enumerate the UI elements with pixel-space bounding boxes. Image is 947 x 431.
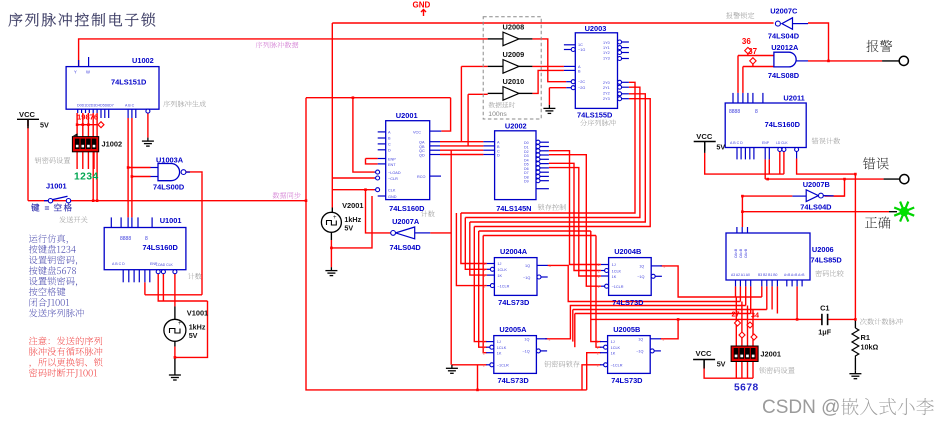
svg-text:U2004A: U2004A: [500, 247, 528, 256]
wire QD to U2002.D: [440, 154, 483, 156]
wire U1003A in1: [128, 167, 150, 169]
label 数据延时: [489, 102, 516, 108]
svg-text:10kΩ: 10kΩ: [861, 343, 879, 352]
wire U2006 out up: [741, 196, 743, 227]
svg-text:~1CLR: ~1CLR: [497, 284, 509, 288]
wire V2001 minus: [330, 240, 332, 267]
svg-text:J1001: J1001: [46, 182, 67, 191]
wire D3 to U2004B ~2CLR: [549, 155, 601, 287]
svg-text:1: 1: [598, 269, 600, 273]
diamond connector key bus: [98, 122, 104, 128]
svg-text:5678: 5678: [734, 383, 759, 394]
wire: [882, 60, 899, 62]
svg-text:V2001: V2001: [342, 201, 363, 210]
svg-text:VCC: VCC: [413, 130, 421, 134]
junction: [854, 318, 857, 321]
wire D2 to U2004B 2J: [549, 151, 601, 265]
wire: [174, 341, 176, 346]
annotation: simulation instructions: [29, 234, 68, 243]
svg-text:D0D1D2D3D4D5D6D7: D0D1D2D3D4D5D6D7: [77, 104, 114, 108]
svg-text:V1001: V1001: [187, 308, 208, 317]
svg-text:1: 1: [483, 268, 485, 272]
wire J2001 col1: [735, 297, 737, 346]
label 钥密码锁存: [544, 361, 579, 368]
svg-text:1C: 1C: [578, 43, 583, 47]
wire U1002.D4 down: [92, 113, 94, 201]
VCC J2001 power symbol: [693, 360, 715, 369]
svg-text:2Y0: 2Y0: [603, 81, 610, 85]
wire VCC rail U2011: [705, 153, 784, 174]
wire to U2004A ~1CLR: [456, 213, 486, 286]
wire U2006 pin down3: [745, 286, 747, 305]
svg-text:8888: 8888: [729, 109, 740, 115]
svg-text:~1Q: ~1Q: [522, 350, 529, 354]
wire: [519, 38, 532, 40]
svg-text:5V: 5V: [344, 223, 353, 232]
svg-text:19876: 19876: [77, 113, 98, 122]
wire U2008 out to ~2C: [532, 39, 566, 82]
wire: [889, 211, 897, 213]
svg-text:34: 34: [751, 311, 759, 320]
wire: [488, 65, 503, 67]
wire to U2004A 1CLK: [465, 218, 487, 270]
U2004B pins: [601, 264, 609, 266]
svg-text:74LS155D: 74LS155D: [577, 111, 613, 120]
svg-text:1CLK: 1CLK: [497, 346, 507, 350]
wire 2Y2 bus: [470, 94, 646, 222]
svg-text:C1: C1: [820, 304, 829, 313]
svg-text:1: 1: [483, 364, 485, 368]
svg-text:VCC: VCC: [19, 110, 36, 119]
wire U2004A 1Q to U2006: [548, 265, 741, 301]
label 锁存控制: [538, 204, 566, 211]
wire down to V1001 minus: [175, 301, 208, 357]
svg-text:1: 1: [597, 340, 599, 344]
wire U2007C in from alarm: [808, 23, 829, 61]
wire vert x477: [477, 365, 479, 390]
svg-text:5V: 5V: [716, 142, 725, 151]
svg-text:OA<B: OA<B: [734, 248, 738, 258]
wire to U2001 ~LOAD: [353, 98, 375, 172]
wire U2006 pin A down1: [735, 286, 737, 297]
svg-text:W: W: [86, 70, 90, 75]
svg-text:A B C D: A B C D: [112, 262, 125, 266]
wire QA to U2002.A: [440, 141, 483, 143]
svg-text:=: =: [45, 203, 50, 213]
wire U2011 ~CLR down: [783, 152, 785, 175]
wire J1002 down3: [87, 152, 89, 169]
counter U1001 74LS160D body: [104, 228, 186, 270]
wire vertical x332: [331, 23, 333, 208]
wire to U2004A 1K: [470, 222, 487, 275]
svg-text:U2001: U2001: [396, 111, 418, 120]
wire J1002 pin1: [76, 113, 78, 137]
label 错误: [863, 157, 889, 169]
decoder U2002 74LS145N body: [495, 131, 536, 200]
multiplexer U1002 74LS151D body: [66, 67, 159, 110]
wire U2012A in1: [738, 55, 774, 57]
svg-text:1J: 1J: [612, 263, 616, 267]
wire J1002 pin2: [82, 113, 84, 137]
svg-text:U2007A: U2007A: [392, 217, 420, 226]
title text: [9, 13, 156, 27]
wire net 次数计数脉冲 C1 row: [591, 318, 822, 320]
svg-text:8: 8: [755, 109, 758, 115]
wire D6 to U2004B 2K: [549, 168, 601, 276]
svg-text:A B C: A B C: [125, 104, 135, 108]
svg-text:1: 1: [483, 352, 485, 356]
label 错误计数: [812, 138, 840, 145]
wire U2009 input: [461, 65, 487, 67]
ground U1002 strobe: [142, 138, 154, 147]
wire 2Y3 bus: [474, 99, 650, 227]
svg-text:1234: 1234: [74, 172, 99, 183]
virtual connector: [747, 322, 753, 328]
junction: [352, 96, 355, 99]
svg-text:~1CLR: ~1CLR: [611, 364, 623, 368]
terminal 报警: [899, 56, 908, 65]
comparator U2006 74LS85D body: [726, 233, 810, 280]
svg-text:U1002: U1002: [132, 56, 154, 65]
svg-text:1: 1: [483, 340, 485, 344]
label 计数 U2001: [421, 211, 435, 218]
U2011 pins: [732, 93, 734, 103]
label 密码比较: [815, 270, 843, 277]
wire to U2004A 1J: [461, 213, 487, 264]
wire U2006 pin down5: [761, 286, 763, 297]
svg-text:U2010: U2010: [503, 77, 525, 86]
wire U2011 ~LOAD down: [779, 152, 781, 175]
svg-text:27: 27: [732, 310, 740, 319]
label 分序列脉冲: [580, 119, 615, 126]
latch U2005B 74LS73D body: [608, 336, 651, 374]
U2005B pins: [600, 341, 608, 343]
svg-text:R1: R1: [861, 333, 870, 342]
svg-text:RCO: RCO: [417, 175, 425, 179]
virtual connector: [735, 320, 741, 326]
ground V2001: [325, 267, 337, 276]
svg-text:1Y0: 1Y0: [603, 41, 610, 45]
wire U2011 CLK to RC node: [797, 159, 856, 320]
svg-text:U2005A: U2005A: [499, 325, 527, 334]
wire: [488, 92, 503, 94]
svg-text:1: 1: [598, 263, 600, 267]
junction: [330, 247, 333, 250]
svg-text:~2C: ~2C: [578, 80, 585, 84]
net label 序列脉冲数据: [256, 42, 299, 49]
inverter U2007B 74LS04D: [806, 190, 818, 202]
svg-text:1J: 1J: [497, 340, 501, 344]
svg-text:5V: 5V: [717, 360, 726, 369]
svg-text:1CLK: 1CLK: [611, 346, 621, 350]
junction: [174, 356, 177, 359]
wire vert x468: [467, 94, 469, 146]
wire U1001 ~LOAD down: [158, 274, 207, 301]
svg-text:1CLK: 1CLK: [612, 269, 622, 273]
svg-text:74LS73D: 74LS73D: [611, 376, 643, 385]
wire: [704, 142, 706, 153]
svg-text:VCC: VCC: [696, 349, 713, 358]
wire U2005B 2Q up: [661, 319, 679, 338]
wire C1 right: [828, 318, 856, 320]
wire U1002.A down to U1001: [127, 118, 129, 217]
svg-text:~LOAD: ~LOAD: [388, 171, 401, 175]
junction: [843, 178, 846, 181]
junction: [131, 175, 134, 178]
junction: [854, 173, 857, 176]
U2004A pins: [487, 263, 495, 265]
diamond connector 37: [750, 58, 756, 64]
svg-text:5V: 5V: [40, 121, 49, 130]
wire ~2G stub: [549, 87, 566, 89]
svg-text:~1Q: ~1Q: [523, 276, 530, 280]
AND gate U2012A 74LS08D: [774, 52, 796, 67]
svg-text:~1Q: ~1Q: [637, 275, 644, 279]
svg-text:U2012A: U2012A: [771, 43, 799, 52]
inverter U2007A 74LS04D (points left): [396, 227, 415, 239]
wire U2011 ENP down: [764, 159, 766, 179]
wire fan row4: [573, 309, 767, 311]
label 钥密码设置: [35, 157, 70, 164]
latch U2004A 74LS73D body: [494, 258, 537, 296]
label 锁密码设置: [759, 367, 794, 374]
wire U1001 ~CLR down: [162, 274, 164, 301]
svg-text:U2009: U2009: [503, 50, 525, 59]
wire VCC down left: [27, 119, 29, 200]
label 正确: [865, 217, 891, 229]
svg-text:1K: 1K: [497, 274, 502, 278]
wire to U2011 top2: [742, 67, 744, 93]
U2001 pins: [378, 131, 386, 133]
wire J2001 dn3: [747, 362, 749, 379]
junction: [476, 389, 479, 392]
wire net 序列脉冲数据: [79, 39, 488, 67]
svg-text:D9: D9: [524, 180, 529, 184]
wire V1001 minus: [174, 347, 176, 358]
svg-text:U2004B: U2004B: [614, 247, 641, 256]
wire fan row4 left end: [572, 310, 574, 342]
wire U2007A input: [430, 232, 451, 234]
wire U2007B input row: [742, 195, 792, 197]
svg-text:1μF: 1μF: [818, 327, 831, 336]
ground R1: [849, 370, 861, 379]
wire to U2005A 1J: [474, 227, 487, 342]
svg-text:CLK: CLK: [388, 189, 396, 193]
svg-text:2Y1: 2Y1: [603, 86, 610, 90]
svg-text:74LS73D: 74LS73D: [612, 298, 644, 307]
wire bundle L5: [479, 230, 591, 232]
svg-text:1Q: 1Q: [639, 264, 644, 268]
svg-text:1: 1: [598, 275, 600, 279]
junction 数据同步: [305, 199, 308, 202]
svg-text:1Y3: 1Y3: [603, 57, 610, 61]
wire J2001 dn4: [752, 362, 754, 379]
wire: [488, 38, 503, 40]
svg-text:1: 1: [663, 264, 665, 268]
virtual connector: [739, 332, 745, 338]
NAND gate U1003A 74LS00D: [158, 164, 180, 181]
wire: [703, 360, 705, 366]
svg-text:100ns: 100ns: [488, 111, 507, 118]
U2002 pins: [483, 141, 494, 143]
label 报警: [866, 40, 892, 52]
wire U1001 CLK to V1001: [174, 274, 176, 306]
svg-text:74LS73D: 74LS73D: [498, 376, 530, 385]
LED probe 正确 (green star): [894, 202, 914, 222]
wire to U2005B 2J: [591, 231, 601, 342]
svg-text:J2001: J2001: [760, 349, 781, 358]
wire: [519, 65, 532, 67]
wire U2001 ENP: [366, 158, 378, 160]
svg-text:U2003: U2003: [585, 24, 607, 33]
junction: [127, 166, 130, 169]
wire U2006 pin down7: [771, 286, 773, 309]
wire to U2005B ~2CLR: [582, 365, 601, 390]
wire U2001 ENT: [366, 159, 378, 164]
wire: [174, 357, 176, 371]
annotation: warning note: [29, 337, 102, 346]
wire U2006 A=B down: [796, 286, 798, 319]
svg-text:+: +: [333, 215, 337, 221]
source V2001: [321, 212, 341, 232]
junction: [92, 199, 95, 202]
wire: [854, 319, 856, 328]
wire U1002 strobe to gnd: [147, 112, 149, 137]
wire fan row5: [575, 313, 751, 315]
svg-text:74LS04D: 74LS04D: [390, 243, 422, 252]
wire U1003A out: [186, 172, 202, 174]
svg-text:1Q: 1Q: [638, 337, 643, 341]
net label 数据同步: [273, 192, 301, 199]
spacer: [0, 0, 1, 1]
U2003 pins: [564, 44, 575, 46]
wire U1003A out down: [201, 174, 203, 295]
svg-text:GND: GND: [413, 1, 431, 10]
svg-text:D: D: [388, 149, 391, 153]
virtual connector: [751, 334, 757, 340]
wire vert x451 QC down: [450, 150, 452, 365]
wire U2004B 2Q to U2006: [661, 266, 762, 297]
wire U2006 pin down2: [739, 286, 741, 301]
wire gnd row to ~1CLR: [452, 364, 487, 366]
svg-text:1K: 1K: [611, 352, 616, 356]
wire fan row5 left end: [574, 314, 576, 348]
wire U2005A 1Q to U2006: [545, 306, 746, 339]
wire U1001? gnd row to V2001: [331, 196, 372, 248]
svg-text:8888: 8888: [120, 236, 131, 242]
svg-text:U2008: U2008: [503, 22, 525, 31]
counter U2001 74LS160D body: [386, 121, 430, 200]
wire QC to U2002.C: [440, 149, 483, 151]
wire to U2005B 2K: [587, 353, 601, 390]
wire U2006 pin down8: [776, 286, 778, 313]
wire to U2011 top1: [737, 56, 739, 93]
wire diamond36 stub: [747, 54, 749, 56]
buffer U2009: [503, 60, 519, 74]
wire U2010 out to B: [532, 70, 564, 93]
U1001 pins: [110, 217, 112, 227]
svg-text:1J: 1J: [497, 262, 501, 266]
VCC left power symbol: [17, 119, 39, 128]
svg-text:LOAD CLK: LOAD CLK: [156, 263, 174, 267]
svg-text:Y: Y: [74, 70, 77, 75]
svg-text:74LS00D: 74LS00D: [153, 182, 185, 191]
wire net 正确: [742, 211, 889, 213]
ground in delay box: [543, 105, 555, 114]
wire key bus: [77, 124, 97, 126]
DIP switch J1002: [72, 137, 98, 152]
J1001 lever: [52, 196, 68, 200]
terminal 错误: [900, 175, 909, 184]
wire to U2001 VCC pin: [441, 98, 450, 131]
wire to U2005B 2CLK: [596, 236, 601, 348]
latch U2004B 74LS73D body: [609, 258, 652, 296]
svg-text:74LS160D: 74LS160D: [389, 204, 425, 213]
wire to U2005A 1K: [483, 236, 487, 353]
svg-text:5V: 5V: [189, 331, 198, 340]
svg-text:1J: 1J: [611, 340, 615, 344]
diamond connector 36: [745, 47, 751, 53]
svg-text:OA>B: OA>B: [744, 248, 748, 258]
svg-text:~1Q: ~1Q: [636, 350, 643, 354]
wire J1002 down2: [82, 152, 84, 169]
svg-text:1Q: 1Q: [525, 264, 530, 268]
wire D5 to U2004B 2CLK: [549, 163, 601, 270]
wire U2006 pin down4: [750, 286, 752, 313]
svg-text:36: 36: [742, 37, 751, 46]
wire ~2G to ground: [548, 88, 550, 105]
wire U2007B out up to 错误: [834, 179, 845, 196]
svg-text:74LS73D: 74LS73D: [498, 298, 530, 307]
junction: [96, 199, 99, 202]
wire CLK to U2007A out: [366, 190, 391, 233]
svg-text:1Q: 1Q: [524, 337, 529, 341]
buffer U2010: [503, 87, 519, 101]
ground V1001: [169, 372, 181, 381]
svg-text:1: 1: [597, 352, 599, 356]
capacitor C1: [821, 314, 823, 325]
wire J1002 down4: [93, 152, 95, 169]
svg-text:1: 1: [598, 285, 600, 289]
svg-text:74LS04D: 74LS04D: [768, 31, 800, 40]
wire J2001 dn1: [735, 362, 737, 379]
svg-text:74LS160D: 74LS160D: [143, 243, 179, 252]
svg-text:1: 1: [597, 346, 599, 350]
svg-text:~1G: ~1G: [578, 48, 585, 52]
junction: [364, 188, 367, 191]
wire J2001 col4: [752, 310, 754, 347]
svg-text:1: 1: [483, 284, 485, 288]
svg-text:2Y3: 2Y3: [603, 97, 610, 101]
junction: [741, 210, 744, 213]
svg-text:1: 1: [483, 262, 485, 266]
svg-text:~1CLR: ~1CLR: [612, 285, 624, 289]
net label 序列脉冲生成: [163, 101, 206, 108]
svg-text:1: 1: [662, 337, 664, 341]
junction: [827, 60, 830, 63]
DIP switch J2001: [731, 346, 758, 362]
svg-text:CSDN @: CSDN @: [762, 397, 840, 418]
svg-text:A<B A=B A>B: A<B A=B A>B: [784, 273, 805, 277]
svg-text:U1003A: U1003A: [156, 156, 184, 165]
svg-text:1Y1: 1Y1: [603, 46, 610, 50]
wire: [884, 178, 900, 180]
svg-text:J1002: J1002: [102, 140, 123, 149]
wire to U2001 CLK: [332, 189, 374, 191]
wire net 报警锁定 top: [332, 22, 773, 24]
U1002 pins: [78, 60, 80, 67]
wire to U2001 ~CLR: [332, 177, 374, 179]
